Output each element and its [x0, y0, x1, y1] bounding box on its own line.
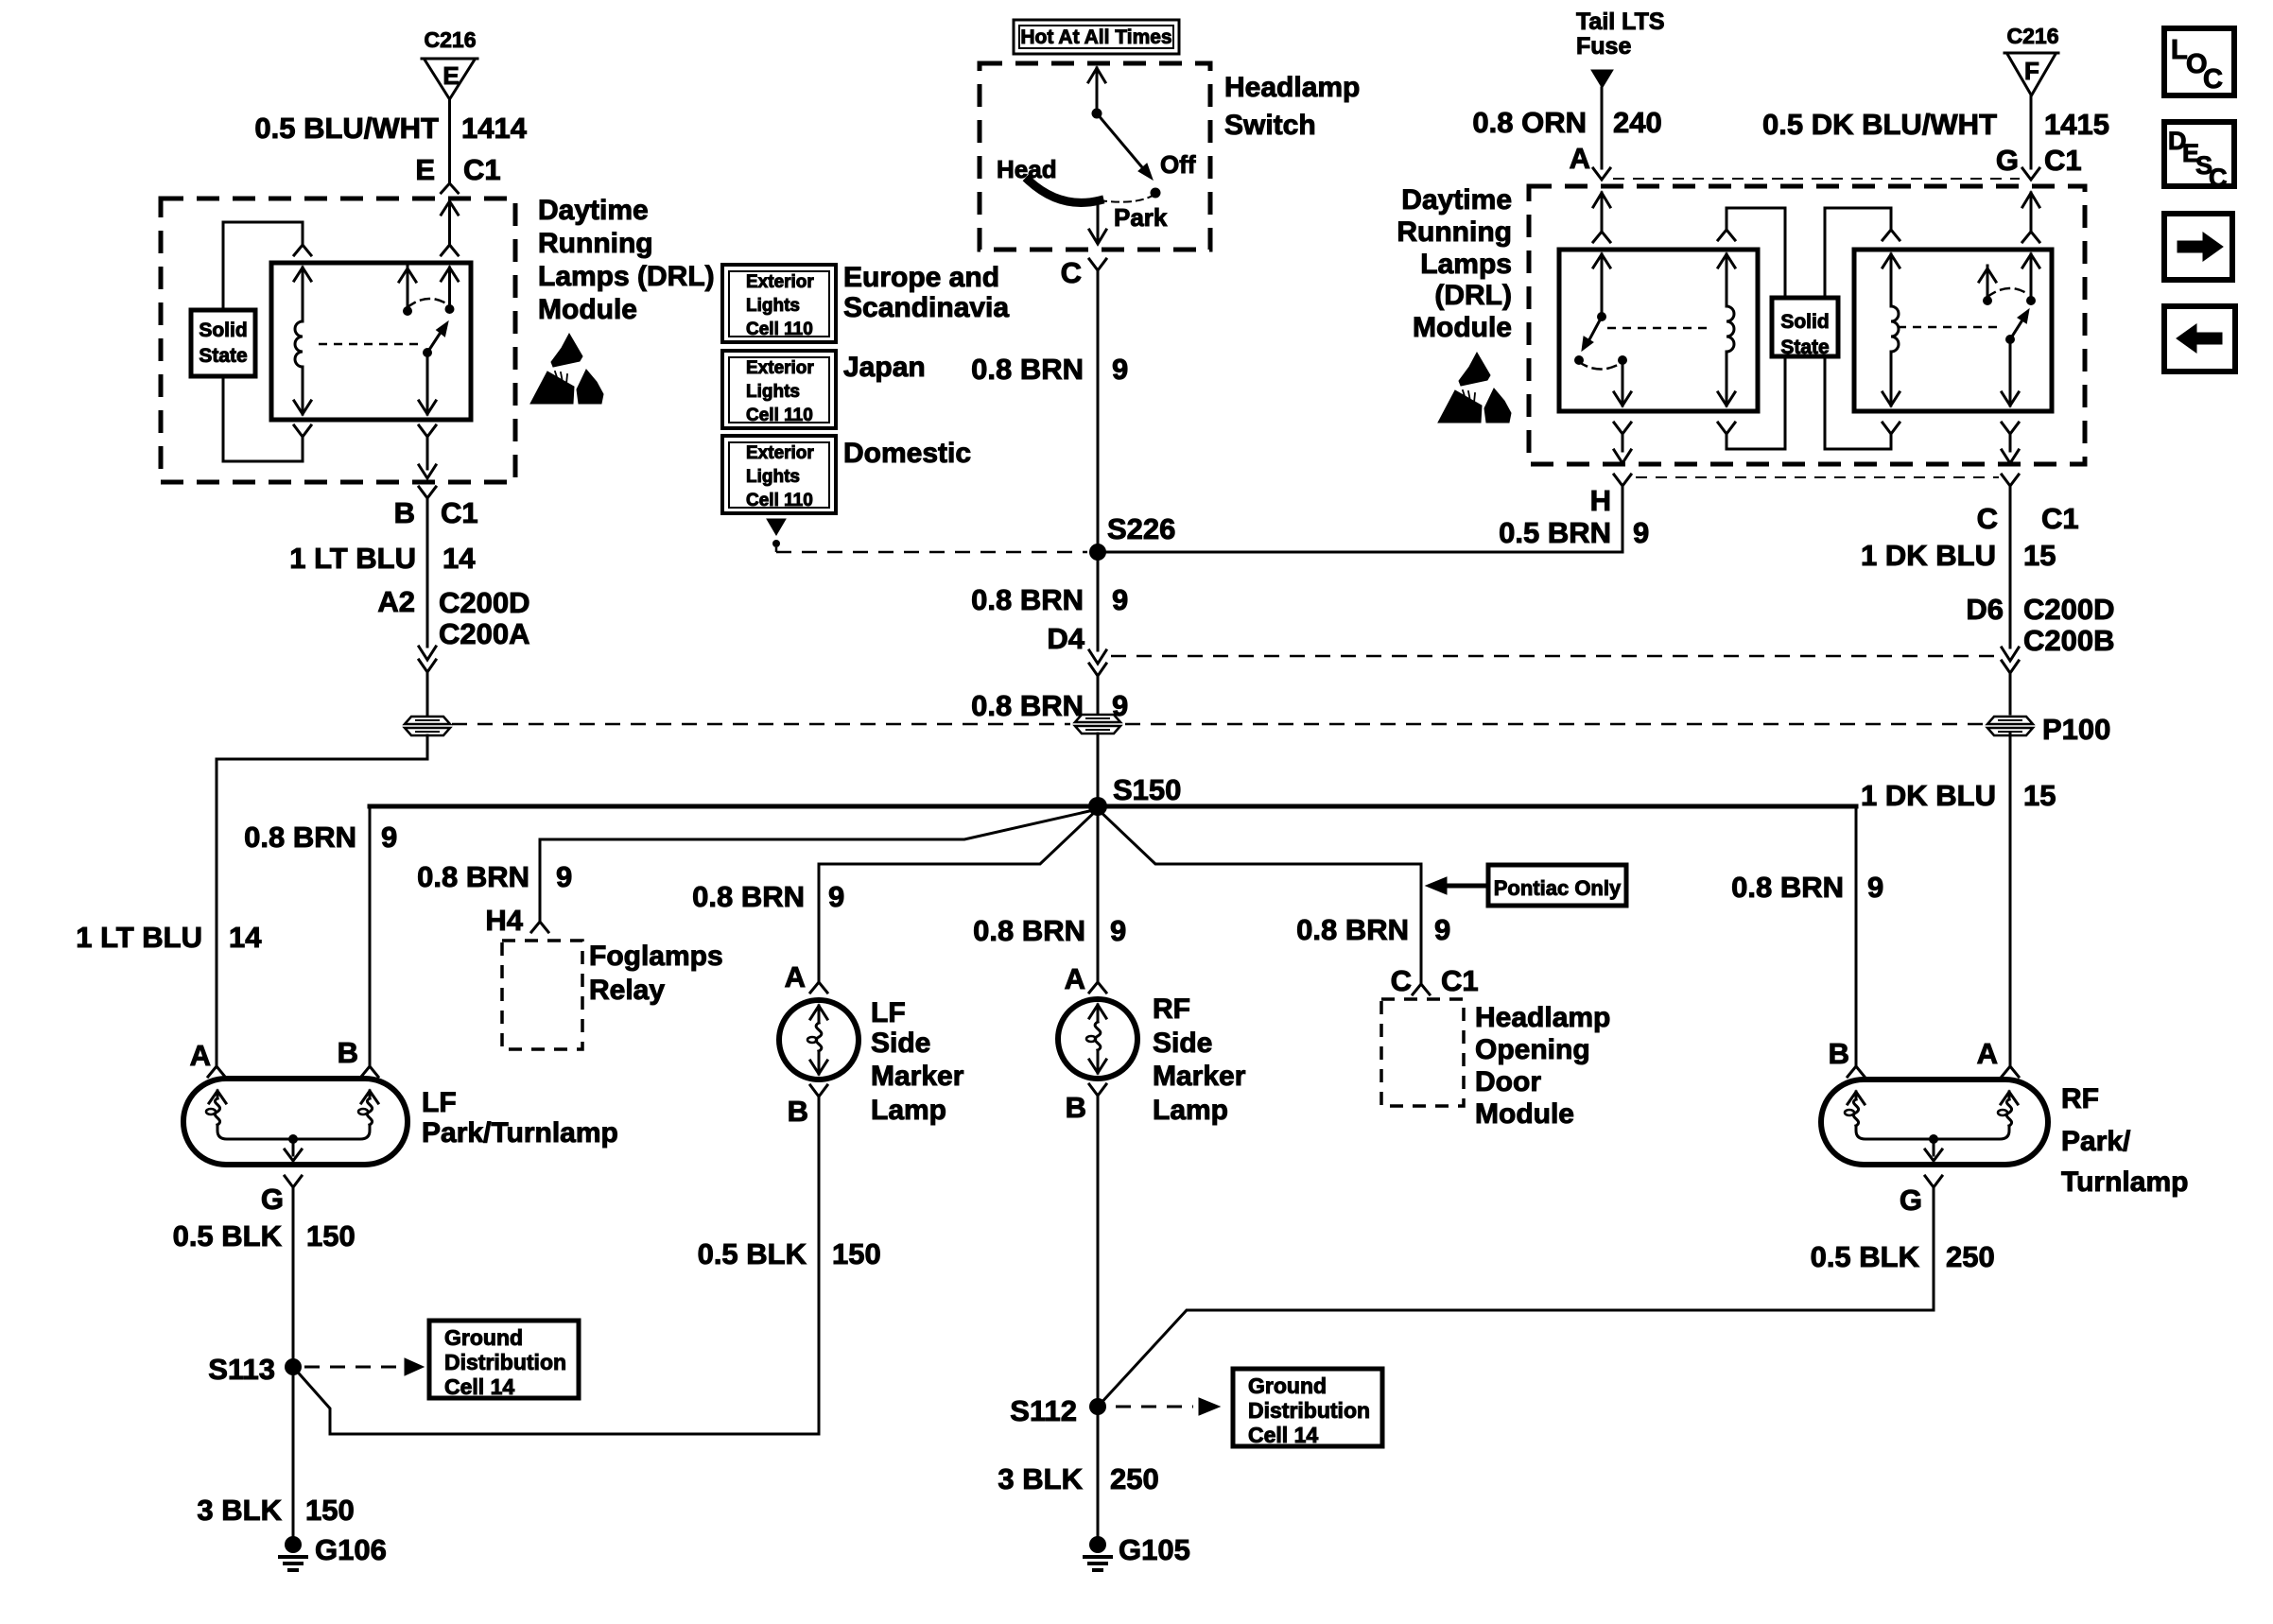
svg-text:Lamps (DRL): Lamps (DRL)	[538, 261, 715, 292]
svg-text:150: 150	[832, 1237, 881, 1270]
svg-text:E: E	[442, 61, 459, 90]
svg-text:0.8 BRN: 0.8 BRN	[971, 583, 1084, 616]
svg-text:S226: S226	[1107, 512, 1175, 545]
svg-text:F: F	[2024, 57, 2039, 85]
svg-text:0.5 BLU/WHT: 0.5 BLU/WHT	[254, 112, 439, 145]
svg-text:Park/: Park/	[2061, 1126, 2131, 1157]
svg-text:A: A	[1570, 142, 1590, 175]
svg-text:Cell 110: Cell 110	[746, 491, 813, 510]
svg-text:C: C	[1391, 964, 1412, 997]
svg-text:Module: Module	[538, 294, 637, 325]
svg-text:Cell 110: Cell 110	[746, 406, 813, 425]
svg-text:Exterior: Exterior	[746, 272, 814, 292]
svg-text:15: 15	[2023, 779, 2056, 812]
svg-text:1 DK BLU: 1 DK BLU	[1861, 539, 1996, 572]
svg-text:Running: Running	[1397, 216, 1512, 248]
svg-text:C1: C1	[2044, 144, 2082, 177]
svg-text:0.8 BRN: 0.8 BRN	[692, 880, 805, 913]
svg-text:B: B	[394, 496, 415, 529]
svg-text:Lamp: Lamp	[1153, 1095, 1228, 1126]
svg-text:0.5 BLK: 0.5 BLK	[698, 1237, 807, 1270]
svg-text:0.8 BRN: 0.8 BRN	[971, 689, 1084, 722]
svg-text:C: C	[2203, 64, 2223, 95]
svg-text:Domestic: Domestic	[843, 438, 971, 469]
svg-text:Headlamp: Headlamp	[1475, 1002, 1610, 1033]
svg-text:LF: LF	[871, 997, 906, 1028]
svg-text:RF: RF	[1153, 993, 1190, 1025]
svg-text:S150: S150	[1113, 773, 1181, 806]
svg-text:H: H	[1590, 484, 1611, 517]
svg-text:Park: Park	[1114, 203, 1168, 232]
svg-text:Scandinavia: Scandinavia	[843, 292, 1009, 323]
svg-text:9: 9	[1867, 871, 1883, 904]
svg-text:Solid: Solid	[1780, 311, 1829, 333]
svg-text:9: 9	[828, 880, 844, 913]
svg-text:250: 250	[1946, 1240, 1995, 1273]
svg-text:Pontiac Only: Pontiac Only	[1494, 876, 1622, 900]
svg-text:S112: S112	[1010, 1394, 1077, 1427]
svg-text:G: G	[261, 1183, 284, 1216]
svg-text:D6: D6	[1966, 593, 2004, 626]
svg-text:B: B	[1829, 1037, 1849, 1070]
svg-text:H4: H4	[485, 904, 523, 937]
svg-text:C216: C216	[425, 27, 477, 52]
svg-text:9: 9	[1633, 516, 1649, 549]
svg-text:Daytime: Daytime	[1401, 184, 1512, 216]
svg-text:Cell 110: Cell 110	[746, 320, 813, 339]
svg-text:E: E	[415, 153, 435, 186]
svg-text:9: 9	[381, 821, 397, 854]
svg-text:Exterior: Exterior	[746, 358, 814, 378]
svg-text:C200A: C200A	[439, 617, 530, 650]
svg-text:Opening: Opening	[1475, 1034, 1590, 1065]
svg-text:A: A	[190, 1039, 211, 1072]
svg-text:0.5 BLK: 0.5 BLK	[173, 1219, 283, 1253]
svg-text:3 BLK: 3 BLK	[197, 1494, 282, 1527]
svg-text:C216: C216	[2007, 24, 2059, 48]
svg-text:Solid: Solid	[199, 320, 247, 341]
svg-text:A2: A2	[377, 585, 415, 618]
svg-text:0.8 BRN: 0.8 BRN	[1731, 871, 1844, 904]
svg-text:9: 9	[1112, 353, 1128, 386]
svg-text:Side: Side	[1153, 1028, 1212, 1059]
svg-text:9: 9	[1112, 583, 1128, 616]
svg-text:9: 9	[1110, 914, 1126, 947]
svg-text:Module: Module	[1413, 312, 1512, 343]
svg-text:C200D: C200D	[2023, 593, 2115, 626]
svg-text:G106: G106	[315, 1533, 387, 1566]
svg-text:0.8 BRN: 0.8 BRN	[971, 353, 1084, 386]
svg-text:P100: P100	[2042, 713, 2110, 746]
svg-text:0.5 BLK: 0.5 BLK	[1811, 1240, 1920, 1273]
svg-text:1414: 1414	[461, 112, 528, 145]
svg-text:C200D: C200D	[439, 586, 530, 619]
svg-text:A: A	[1065, 962, 1085, 995]
svg-text:A: A	[1977, 1037, 1998, 1070]
svg-text:C1: C1	[1441, 964, 1479, 997]
svg-text:Off: Off	[1160, 150, 1196, 179]
svg-text:240: 240	[1613, 106, 1662, 139]
svg-text:1 LT BLU: 1 LT BLU	[289, 542, 416, 575]
svg-text:C1: C1	[2041, 502, 2079, 535]
svg-text:Daytime: Daytime	[538, 195, 649, 226]
svg-text:Ground: Ground	[1248, 1373, 1327, 1398]
svg-text:Module: Module	[1475, 1098, 1574, 1130]
svg-text:Cell 14: Cell 14	[1248, 1423, 1318, 1447]
svg-text:Tail LTS: Tail LTS	[1576, 9, 1665, 35]
svg-text:Running: Running	[538, 228, 653, 259]
svg-text:B: B	[338, 1036, 358, 1069]
svg-text:9: 9	[556, 860, 572, 893]
svg-text:14: 14	[442, 542, 476, 575]
svg-text:Lights: Lights	[746, 382, 800, 402]
svg-text:3 BLK: 3 BLK	[998, 1462, 1083, 1495]
svg-text:Distribution: Distribution	[1248, 1398, 1370, 1423]
svg-text:0.8 BRN: 0.8 BRN	[1296, 913, 1409, 946]
svg-text:Exterior: Exterior	[746, 443, 814, 463]
svg-text:(DRL): (DRL)	[1434, 280, 1512, 311]
svg-text:Switch: Switch	[1224, 110, 1316, 141]
svg-text:Fuse: Fuse	[1576, 33, 1631, 60]
svg-text:0.8 BRN: 0.8 BRN	[417, 860, 529, 893]
svg-text:RF: RF	[2061, 1083, 2099, 1114]
svg-text:D4: D4	[1047, 622, 1084, 655]
svg-text:A: A	[785, 960, 806, 993]
svg-text:Ground: Ground	[444, 1325, 523, 1350]
svg-text:1 LT BLU: 1 LT BLU	[76, 921, 202, 954]
svg-text:1 DK BLU: 1 DK BLU	[1861, 779, 1996, 812]
svg-text:Park/Turnlamp: Park/Turnlamp	[422, 1117, 618, 1149]
svg-text:B: B	[1066, 1091, 1086, 1124]
svg-text:Headlamp: Headlamp	[1224, 72, 1360, 103]
svg-text:250: 250	[1110, 1462, 1159, 1495]
svg-text:S113: S113	[208, 1353, 275, 1386]
svg-text:G105: G105	[1119, 1533, 1190, 1566]
svg-text:Lamp: Lamp	[871, 1095, 946, 1126]
svg-text:C1: C1	[463, 153, 501, 186]
svg-text:Japan: Japan	[843, 352, 926, 383]
svg-text:150: 150	[306, 1219, 356, 1253]
svg-text:Distribution: Distribution	[444, 1350, 566, 1374]
svg-text:0.5 BRN: 0.5 BRN	[1499, 516, 1611, 549]
svg-text:14: 14	[229, 921, 262, 954]
svg-text:0.5 DK BLU/WHT: 0.5 DK BLU/WHT	[1762, 108, 1997, 141]
svg-text:Lights: Lights	[746, 296, 800, 316]
svg-text:C: C	[1977, 502, 1998, 535]
svg-text:State: State	[199, 345, 247, 367]
svg-text:Europe and: Europe and	[843, 262, 999, 293]
svg-text:Foglamps: Foglamps	[589, 941, 723, 972]
svg-text:Marker: Marker	[871, 1061, 964, 1092]
svg-text:Door: Door	[1475, 1066, 1541, 1097]
svg-text:150: 150	[305, 1494, 355, 1527]
svg-text:C: C	[2209, 164, 2228, 192]
svg-text:0.8 BRN: 0.8 BRN	[973, 914, 1085, 947]
svg-text:9: 9	[1434, 913, 1450, 946]
svg-text:Lamps: Lamps	[1420, 249, 1512, 280]
svg-text:G: G	[1900, 1183, 1922, 1217]
svg-text:State: State	[1780, 337, 1829, 358]
svg-text:15: 15	[2023, 539, 2056, 572]
svg-text:Cell 14: Cell 14	[444, 1374, 514, 1399]
svg-text:0.8 ORN: 0.8 ORN	[1472, 106, 1587, 139]
svg-text:Marker: Marker	[1153, 1061, 1246, 1092]
svg-text:Hot At All Times: Hot At All Times	[1020, 26, 1171, 48]
svg-text:Lights: Lights	[746, 467, 800, 487]
svg-text:1415: 1415	[2044, 108, 2109, 141]
svg-text:Turnlamp: Turnlamp	[2061, 1166, 2188, 1198]
svg-text:C1: C1	[441, 496, 478, 529]
svg-text:Side: Side	[871, 1028, 930, 1059]
svg-text:0.8 BRN: 0.8 BRN	[244, 821, 356, 854]
svg-text:B: B	[788, 1095, 808, 1128]
svg-text:C: C	[1061, 256, 1082, 289]
svg-text:LF: LF	[422, 1087, 457, 1118]
svg-text:Relay: Relay	[589, 975, 665, 1006]
svg-text:G: G	[1996, 144, 2019, 177]
svg-text:C200B: C200B	[2023, 624, 2115, 657]
